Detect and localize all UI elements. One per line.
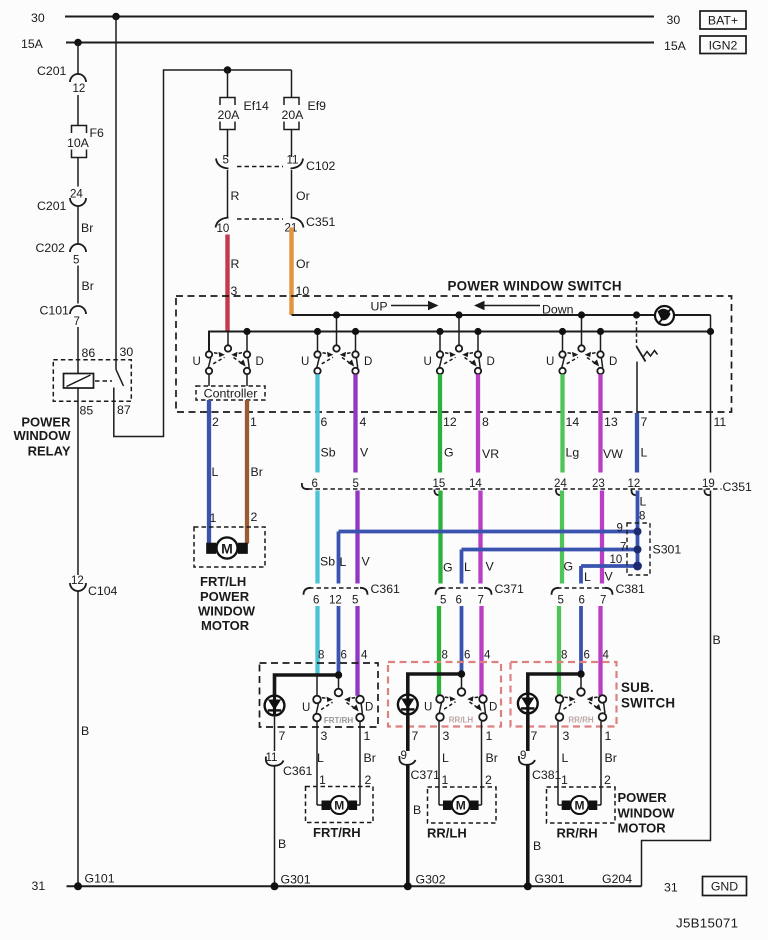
svg-text:VR: VR [482, 447, 499, 461]
svg-text:POWER: POWER [200, 589, 250, 604]
svg-text:L: L [641, 446, 648, 460]
svg-text:24: 24 [70, 189, 83, 201]
svg-text:Lg: Lg [566, 446, 580, 460]
svg-text:G301: G301 [535, 872, 565, 886]
svg-text:L: L [640, 495, 647, 509]
svg-text:7: 7 [531, 729, 538, 743]
svg-text:1: 1 [250, 415, 257, 429]
svg-text:UP: UP [371, 300, 388, 314]
svg-text:87: 87 [117, 403, 131, 417]
svg-text:7: 7 [478, 595, 484, 607]
svg-text:10A: 10A [67, 136, 90, 150]
svg-text:C351: C351 [306, 215, 336, 229]
svg-text:D: D [489, 702, 497, 714]
svg-text:12: 12 [73, 83, 86, 95]
svg-text:U: U [424, 702, 432, 714]
svg-text:9: 9 [401, 750, 407, 762]
svg-text:C201: C201 [37, 199, 67, 213]
svg-text:5: 5 [558, 595, 564, 607]
svg-text:7: 7 [600, 595, 606, 607]
svg-text:2: 2 [604, 773, 611, 787]
svg-text:Sb: Sb [320, 555, 335, 569]
svg-text:Br: Br [81, 221, 93, 235]
svg-text:24: 24 [554, 478, 567, 490]
svg-text:V: V [605, 570, 614, 584]
svg-text:6: 6 [456, 595, 462, 607]
svg-text:15A: 15A [664, 39, 687, 53]
svg-text:L: L [340, 555, 347, 569]
svg-text:L: L [212, 465, 219, 479]
svg-text:4: 4 [484, 650, 491, 662]
svg-text:C104: C104 [88, 584, 118, 598]
svg-text:Br: Br [605, 751, 617, 765]
svg-text:L: L [562, 751, 569, 765]
svg-text:V: V [360, 446, 369, 460]
svg-text:6: 6 [464, 650, 470, 662]
svg-text:WINDOW: WINDOW [13, 428, 71, 443]
svg-text:4: 4 [360, 415, 367, 429]
svg-text:Br: Br [486, 751, 498, 765]
svg-text:1: 1 [210, 511, 217, 525]
svg-text:G204: G204 [602, 872, 632, 886]
svg-text:V: V [362, 555, 371, 569]
svg-text:23: 23 [592, 478, 605, 490]
svg-text:G301: G301 [281, 873, 311, 887]
svg-text:8: 8 [482, 415, 489, 429]
svg-text:Sb: Sb [321, 446, 336, 460]
svg-text:20A: 20A [218, 108, 241, 122]
svg-text:MOTOR: MOTOR [201, 618, 250, 633]
svg-text:1: 1 [442, 773, 449, 787]
svg-text:RR/RH: RR/RH [568, 716, 594, 725]
svg-text:3: 3 [443, 729, 450, 743]
svg-text:6: 6 [312, 478, 318, 490]
svg-text:31: 31 [664, 881, 678, 895]
svg-text:7: 7 [412, 729, 419, 743]
svg-text:31: 31 [32, 879, 46, 893]
svg-text:8: 8 [639, 511, 645, 523]
svg-text:G: G [443, 561, 453, 575]
svg-text:7: 7 [641, 415, 648, 429]
svg-text:D: D [365, 702, 373, 714]
svg-text:86: 86 [82, 346, 96, 360]
svg-text:30: 30 [120, 345, 134, 359]
svg-text:G302: G302 [416, 873, 446, 887]
svg-text:30: 30 [667, 13, 681, 27]
svg-text:1: 1 [486, 729, 493, 743]
svg-text:14: 14 [469, 478, 482, 490]
svg-text:5: 5 [353, 478, 359, 490]
svg-text:6: 6 [341, 650, 347, 662]
svg-text:WINDOW: WINDOW [198, 604, 256, 619]
svg-text:B: B [413, 803, 421, 817]
svg-text:MOTOR: MOTOR [618, 821, 667, 836]
svg-text:6: 6 [321, 415, 328, 429]
svg-text:VW: VW [603, 447, 623, 461]
svg-text:G: G [444, 446, 454, 460]
svg-text:POWER WINDOW SWITCH: POWER WINDOW SWITCH [448, 279, 622, 294]
svg-text:15A: 15A [21, 37, 44, 51]
svg-text:C381: C381 [616, 582, 646, 596]
svg-text:C381: C381 [532, 768, 562, 782]
svg-text:2: 2 [365, 773, 372, 787]
svg-text:10: 10 [610, 554, 623, 566]
svg-text:20A: 20A [282, 108, 305, 122]
svg-text:1: 1 [605, 729, 612, 743]
svg-text:11: 11 [714, 415, 727, 429]
svg-text:4: 4 [603, 650, 610, 662]
svg-text:12: 12 [628, 478, 641, 490]
svg-text:Br: Br [364, 751, 376, 765]
svg-text:8: 8 [561, 650, 567, 662]
svg-text:B: B [81, 724, 89, 738]
svg-text:C371: C371 [411, 768, 441, 782]
svg-text:6: 6 [313, 595, 319, 607]
svg-text:7: 7 [279, 729, 286, 743]
svg-text:RR/LH: RR/LH [449, 716, 474, 725]
svg-text:1: 1 [561, 773, 568, 787]
svg-text:6: 6 [579, 595, 585, 607]
svg-text:L: L [464, 560, 471, 574]
svg-text:1: 1 [319, 773, 326, 787]
svg-text:Ef9: Ef9 [308, 99, 327, 113]
svg-text:L: L [584, 570, 591, 584]
svg-text:C201: C201 [37, 64, 67, 78]
svg-text:GND: GND [711, 880, 738, 894]
svg-text:19: 19 [702, 478, 715, 490]
svg-text:6: 6 [584, 650, 590, 662]
svg-text:IGN2: IGN2 [709, 39, 738, 53]
svg-text:SUB.: SUB. [621, 680, 654, 695]
svg-text:G: G [564, 560, 574, 574]
svg-text:V: V [486, 560, 495, 574]
svg-text:F6: F6 [90, 126, 105, 140]
svg-text:WINDOW: WINDOW [618, 806, 676, 821]
svg-text:U: U [302, 702, 310, 714]
svg-text:5: 5 [352, 595, 358, 607]
svg-text:5: 5 [440, 595, 446, 607]
svg-text:C361: C361 [371, 582, 401, 596]
svg-text:3: 3 [321, 729, 328, 743]
svg-text:B: B [713, 633, 721, 647]
svg-text:RR/RH: RR/RH [557, 826, 598, 841]
svg-text:G101: G101 [85, 872, 115, 886]
svg-text:C361: C361 [283, 764, 313, 778]
svg-text:S301: S301 [653, 543, 682, 557]
svg-text:4: 4 [361, 650, 368, 662]
svg-text:B: B [278, 837, 286, 851]
svg-text:12: 12 [443, 415, 457, 429]
svg-text:C371: C371 [495, 582, 525, 596]
svg-text:10: 10 [217, 223, 230, 235]
svg-text:7: 7 [74, 316, 80, 328]
svg-text:12: 12 [329, 595, 342, 607]
svg-text:5: 5 [73, 255, 79, 267]
svg-text:8: 8 [318, 650, 324, 662]
svg-text:3: 3 [563, 729, 570, 743]
svg-text:L: L [442, 751, 449, 765]
svg-text:11: 11 [287, 155, 299, 167]
svg-text:Controller: Controller [204, 387, 258, 401]
svg-text:J5B15071: J5B15071 [676, 916, 738, 931]
svg-text:Br: Br [82, 279, 94, 293]
svg-text:12: 12 [71, 575, 84, 587]
svg-text:5: 5 [223, 155, 229, 167]
svg-text:BAT+: BAT+ [708, 14, 738, 28]
svg-text:L: L [317, 751, 324, 765]
svg-text:POWER: POWER [618, 790, 668, 805]
svg-text:15: 15 [433, 478, 446, 490]
svg-text:1: 1 [364, 729, 371, 743]
svg-text:C351: C351 [723, 480, 753, 494]
svg-text:2: 2 [485, 773, 492, 787]
svg-text:C102: C102 [306, 159, 336, 173]
svg-text:FRT/RH: FRT/RH [324, 716, 354, 725]
svg-text:SWITCH: SWITCH [621, 696, 675, 711]
svg-text:2: 2 [212, 415, 219, 429]
svg-text:Br: Br [251, 465, 263, 479]
svg-text:B: B [533, 839, 541, 853]
svg-text:9: 9 [617, 523, 623, 535]
svg-text:RELAY: RELAY [28, 444, 71, 459]
svg-text:C101: C101 [40, 304, 70, 318]
svg-text:14: 14 [566, 415, 580, 429]
svg-text:13: 13 [604, 415, 618, 429]
svg-text:RR/LH: RR/LH [427, 826, 467, 841]
svg-text:7: 7 [620, 542, 626, 554]
svg-text:FRT/RH: FRT/RH [313, 825, 361, 840]
svg-text:85: 85 [80, 404, 94, 418]
svg-text:9: 9 [520, 750, 526, 762]
svg-text:30: 30 [31, 11, 45, 25]
svg-text:Or: Or [296, 257, 310, 271]
svg-text:Ef14: Ef14 [244, 99, 269, 113]
svg-text:FRT/LH: FRT/LH [200, 574, 246, 589]
svg-text:2: 2 [251, 510, 258, 524]
svg-text:8: 8 [442, 650, 448, 662]
svg-text:C202: C202 [36, 241, 66, 255]
svg-text:R: R [231, 257, 240, 271]
svg-text:R: R [231, 189, 240, 203]
svg-text:Or: Or [296, 189, 310, 203]
